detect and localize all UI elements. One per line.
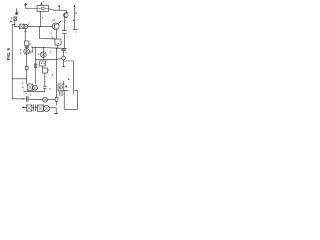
box B4 with plus marks <box>40 61 46 66</box>
varactor D2 (small circle) <box>62 57 65 60</box>
box B2 <box>55 39 61 45</box>
canned transistor Q4 (box with circle and 3 legs) <box>58 84 64 96</box>
wire (M1 down to box B3) <box>24 29 26 41</box>
wire (C1 down to node N1 on wire W5) <box>63 34 65 48</box>
capacitor C6 (bottom row, vertical plates) <box>34 105 36 111</box>
wire (R1 down to crystal X3) <box>26 70 28 84</box>
capacitor C2 (under B3) <box>25 46 29 47</box>
wire W9 segments (bottom row) <box>32 107 38 109</box>
mixer M3 (circle with X, lower left cluster) <box>33 85 38 90</box>
wire W8 (C5 to mixer M4) <box>28 98 43 100</box>
wire (J4 down to open end) <box>63 61 65 67</box>
wire (Q1 emitter down to capacitor C1) <box>63 18 65 30</box>
crystal X1 (box with X, upper left) <box>14 17 17 20</box>
capacitor C3 (under B6 lead) <box>43 86 46 88</box>
arrow stub S1 on wire W2 <box>58 5 60 11</box>
wire (second mid vertical from W5 down) <box>35 47 37 84</box>
wire (M2 output riser to W5) <box>29 47 33 52</box>
wire (long vertical from J2 down to R3) <box>56 48 58 97</box>
crystal X5 (box with X, bottom row) <box>38 105 44 111</box>
wire W7 (cluster bottom) <box>24 91 45 93</box>
transistor Q3 (center, circle with X) <box>41 52 47 58</box>
wire (X1 down to bus corner) <box>14 20 16 24</box>
wire (corner drop to W3) <box>13 24 15 26</box>
wire W3 (horizontal, mid left) <box>14 25 52 27</box>
wire W1 (arrow to oscillator box) <box>26 8 37 10</box>
wire (M4 to long vertical) <box>47 99 55 101</box>
tick above C5 <box>26 93 27 94</box>
input arrow A2 (top left) <box>24 3 27 9</box>
wire W5 (long horizontal) <box>31 47 66 48</box>
wire (M2 down lead) <box>26 54 28 66</box>
component blob D1 on stub <box>15 13 17 15</box>
wire (Q3 collector stub to W5) <box>42 47 44 51</box>
crystal X2 (box with X on W3) <box>20 24 24 29</box>
antenna stub (top left chain) <box>16 9 18 13</box>
Q2 collector tick <box>59 21 62 24</box>
node J2 (junction on W5) <box>56 48 57 49</box>
input arrow A3 (bottom row) <box>22 106 26 109</box>
wire V1 (oscillator box down to J1) <box>40 11 42 26</box>
crystal X3 (box with X, lower left cluster) <box>28 84 33 90</box>
box B5 (large, open top) <box>64 90 77 109</box>
wire (W6 extension to C4 chain) <box>57 58 62 61</box>
node J1 (junction on W3) <box>40 26 41 27</box>
box B3 (above M2) <box>25 41 29 46</box>
wire (bus top corner) <box>12 23 15 25</box>
wire (B4 to B6) <box>42 66 44 68</box>
dot inside B2 <box>58 43 59 44</box>
wire (C4 down to varactor) <box>63 51 65 57</box>
wire (Q3 emitter stub to W6) <box>42 57 44 59</box>
wire W4 (branch from J1 down and right to box B2) <box>40 27 55 39</box>
svg-text:FIG. 5: FIG. 5 <box>6 47 11 60</box>
rail terminal bar <box>73 29 77 31</box>
mixer M1 (circle with X on W3) <box>24 24 28 28</box>
transistor Q2 <box>52 23 59 30</box>
box B6 <box>43 68 48 73</box>
wire W6 <box>36 58 57 60</box>
wire (C3 to wire W7) <box>44 88 46 91</box>
capacitor C5 (vertical plates) <box>26 96 28 101</box>
mixer M4 (circle with X on W8) <box>43 97 48 102</box>
label blob (left of bus corner) <box>10 21 11 23</box>
wire (Q2 emitter down to box B2) <box>55 30 57 39</box>
tick at B4 corner <box>46 60 47 61</box>
wire (down lead to canned transistor) <box>63 81 65 84</box>
wire W2 (oscillator output to right) <box>49 9 67 11</box>
mixer M5 (circle with X, bottom row) <box>44 105 50 111</box>
wire W10 (node J4 right and down into box B5) <box>64 60 74 93</box>
arrow A1 (up arrow on oscillator box) <box>41 2 43 6</box>
component R3 (small box on long vertical) <box>55 97 58 101</box>
tick on supply rail <box>73 19 74 21</box>
wire (left bus branch) <box>12 78 27 80</box>
capacitor C4 (below W5) <box>62 49 66 50</box>
wire (node N1 down) <box>63 47 65 50</box>
wire (B2 down to wire W5) <box>57 45 59 48</box>
ground <box>55 113 58 115</box>
capacitor C1 <box>62 31 66 34</box>
wire (M5 right, down to ground) <box>50 108 57 114</box>
crystal X4 (box with X, bottom row) <box>27 105 32 111</box>
component R1 on M2 down lead <box>25 66 28 69</box>
transistor Q1 (top right) <box>64 10 69 18</box>
left bus wire <box>11 24 13 98</box>
node J3 (junction on W5) <box>43 47 44 48</box>
wire (B6 down lead) <box>44 73 46 86</box>
label blob (near B5 top left) <box>66 86 67 88</box>
wire (C2 to M2) <box>26 48 28 49</box>
plus tick on lead <box>24 31 26 33</box>
label dot above A1 <box>42 0 45 3</box>
component R2 on it <box>34 64 37 67</box>
mixer M2 (circle with X, left chain) <box>24 49 30 55</box>
wire (left bus bottom corner to capacitor C5) <box>12 98 25 100</box>
open-end bar <box>62 66 65 68</box>
wire (R3 down to W9) <box>56 101 58 105</box>
oscillator box U1 with crystal symbol <box>37 5 49 11</box>
label blob (above B5) <box>68 79 69 80</box>
tick at B2 corner <box>54 38 55 39</box>
supply rail V+ (right bus) with up arrow <box>74 5 76 30</box>
